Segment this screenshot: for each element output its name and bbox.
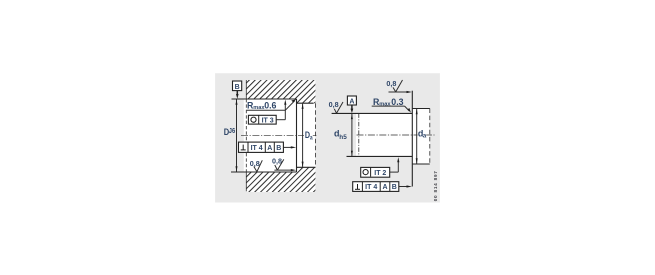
shaft shoulder bottom edge — [412, 163, 430, 165]
bore seat surface top line — [232, 98, 297, 100]
label dh5 — [334, 128, 347, 140]
feature control frame: perpendicularity IT4 A B (left) — [239, 142, 297, 152]
roughness symbol 0,8 on shoulder face with leader — [272, 156, 296, 171]
bore centerline — [241, 134, 318, 136]
shaft seat top surface line — [332, 112, 413, 114]
svg-text:0.3: 0.3 — [391, 97, 403, 107]
housing shoulder face line — [296, 99, 298, 172]
roughness 0,8 above shaft with leader arrow — [386, 79, 412, 93]
shaft seat left boundary dash-dot — [358, 113, 360, 156]
datum A symbol box — [347, 96, 356, 113]
dimension da leader line — [416, 109, 418, 164]
svg-text:J6: J6 — [229, 127, 236, 135]
svg-text:B: B — [392, 184, 397, 191]
shaft seat white body — [356, 113, 412, 156]
bore seat surface bottom line — [231, 171, 297, 173]
roughness 0,8 on shaft seat extension line — [329, 100, 343, 113]
shaft shoulder top edge — [412, 108, 430, 110]
roughness symbol 0,8 on bore seat — [250, 159, 262, 172]
dimension dh5 leader line — [351, 114, 353, 156]
feature control frame: roundness IT2 (shaft) — [361, 157, 400, 177]
grey drawing panel — [215, 73, 440, 202]
svg-text:0.6: 0.6 — [264, 100, 276, 110]
label Rmax 0.6 with leader arrow — [247, 99, 297, 111]
dimension Da leader line — [302, 104, 304, 168]
shaft centerline — [357, 134, 435, 136]
svg-text:0,8: 0,8 — [250, 159, 260, 168]
datum B symbol box — [233, 81, 242, 99]
housing left face edge lower — [245, 172, 247, 191]
housing left face dashed line — [245, 99, 247, 172]
dimension D leader line — [236, 99, 238, 171]
housing upper section hatched block — [246, 80, 315, 103]
shaft shoulder right boundary dashed — [429, 109, 431, 165]
svg-text:A: A — [267, 145, 272, 152]
shaft shoulder white body — [412, 109, 430, 165]
label Da — [304, 130, 314, 141]
housing left face edge upper — [245, 80, 247, 99]
svg-text:00 814 897: 00 814 897 — [433, 170, 438, 201]
svg-text:IT 2: IT 2 — [374, 170, 386, 177]
svg-text:IT 3: IT 3 — [262, 117, 274, 124]
feature control frame: roundness IT3 — [248, 100, 286, 125]
svg-text:A: A — [382, 184, 387, 191]
label da — [418, 128, 427, 139]
svg-text:B: B — [276, 145, 281, 152]
label Rmax 0.3 with leader arrow — [372, 97, 411, 113]
shoulder bore bottom edge — [297, 166, 316, 168]
svg-text:B: B — [235, 84, 240, 91]
svg-text:IT 4: IT 4 — [365, 184, 377, 191]
label D J6 — [224, 126, 236, 137]
shoulder bore top edge — [297, 102, 314, 104]
svg-text:A: A — [349, 99, 354, 106]
svg-text:h5: h5 — [339, 134, 347, 141]
housing lower section hatched block — [246, 167, 315, 192]
svg-text:0,8: 0,8 — [329, 100, 339, 109]
feature control frame: perpendicularity IT4 A B (shaft) — [353, 182, 412, 192]
shaft shoulder face line with extensions — [411, 91, 413, 187]
housing right face dashed line — [314, 103, 316, 167]
shaft seat bottom surface line — [347, 155, 413, 157]
bore interior white band (left figure) — [244, 99, 316, 172]
svg-text:0,8: 0,8 — [386, 79, 396, 88]
svg-text:IT 4: IT 4 — [251, 145, 263, 152]
